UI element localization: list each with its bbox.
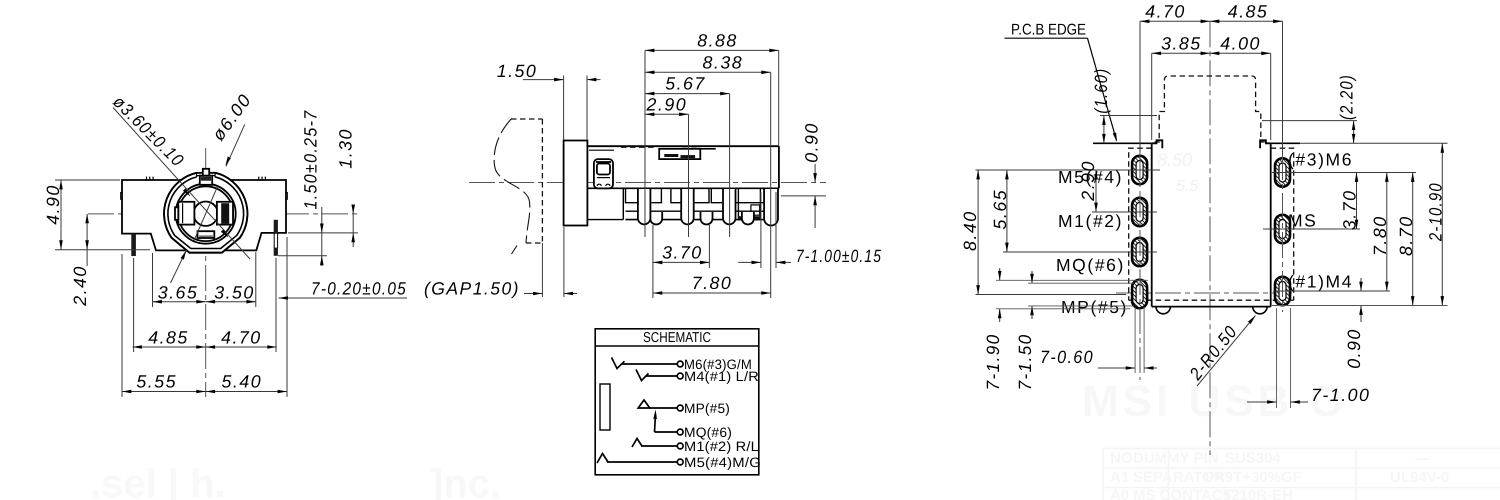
rear pin tip 2 (701, 212, 713, 225)
dim 1.50 line left (523, 79, 564, 81)
svg-text:.sel | h.: .sel | h. (90, 462, 226, 500)
top plate right line (700, 148, 715, 150)
svg-text:5.65: 5.65 (990, 189, 1010, 230)
plug sleeve rectangle (600, 384, 610, 430)
svg-text:7-1.00: 7-1.00 (1311, 385, 1370, 405)
body bottom ext line (1272, 305, 1448, 307)
contact MQ terminal (677, 429, 683, 435)
contact MP symbol triangle (638, 400, 650, 408)
gap dim extension from cap face (563, 227, 565, 297)
dim 1.50+-0.25-7 extension lines (278, 233, 358, 256)
svg-text:SUS304: SUS304 (1225, 450, 1282, 467)
dim 4.70 4.85 line (1140, 20, 1283, 22)
mating plug break wavy line (494, 119, 530, 244)
middle view horizontal center line (469, 182, 826, 184)
svg-text:5.5: 5.5 (1176, 178, 1198, 195)
svg-text:3.65: 3.65 (158, 283, 199, 303)
gap dim line right (564, 293, 577, 295)
dim 7-1.00 ext lines (1277, 308, 1291, 408)
dim 1.50+-0.25-7 line (321, 207, 323, 266)
center hole circle (194, 202, 218, 226)
right pin (front view) (274, 220, 278, 234)
svg-text:1.50: 1.50 (497, 61, 538, 81)
svg-text:C5210R-EH: C5210R-EH (1212, 487, 1293, 500)
pad M4 (1275, 277, 1290, 306)
contact M5 symbol (597, 454, 608, 464)
svg-text:PA9T+30%GF: PA9T+30%GF (1205, 469, 1302, 486)
svg-text:1.50±0.25-7: 1.50±0.25-7 (301, 110, 321, 210)
mating plug dashed edge bottom (526, 242, 542, 244)
dim 7-1.90 line (999, 268, 1001, 322)
right inner block dark bar (738, 216, 760, 219)
dim (1.60) ext line (1100, 115, 1157, 117)
contact MP wire (650, 407, 678, 409)
arrow dia3.60 upper (183, 188, 192, 197)
left pin (front view) (131, 234, 136, 256)
inner socket ring inner R27.5 (178, 186, 233, 241)
contact M1 wire (641, 445, 677, 447)
dim 7-1.00 extension lines (761, 192, 776, 268)
svg-text:2-10.90: 2-10.90 (1425, 182, 1445, 242)
svg-text:M1(#2): M1(#2) (1058, 211, 1123, 231)
pad MS (1275, 215, 1290, 244)
outer ring inner edge R38 flattened (168, 177, 244, 249)
knurl ticks top-left (147, 177, 154, 180)
hidden wing right (1271, 148, 1294, 300)
svg-text:4.70: 4.70 (1145, 2, 1186, 22)
left contact outer bump (175, 207, 178, 220)
body top edge (587, 145, 779, 147)
right contact dark bar (221, 203, 229, 224)
schematic box frame (595, 329, 759, 475)
right pad column center line overlay (1282, 154, 1284, 312)
leader M6 (1272, 172, 1416, 174)
body bottom line (587, 187, 779, 189)
svg-text:UL94V-0: UL94V-0 (1390, 469, 1449, 486)
top tab dark bar (201, 177, 211, 181)
pcb edge line left (1093, 142, 1152, 144)
pad row center line horizontal (1116, 292, 1292, 294)
svg-text:NO: NO (1110, 450, 1133, 467)
dim 0.90 right line (1360, 278, 1362, 322)
contact M4 wire (646, 375, 677, 377)
dim 8.70 line (1412, 173, 1414, 306)
svg-text:4.85: 4.85 (148, 328, 189, 348)
svg-text:7-1.50: 7-1.50 (1015, 333, 1035, 390)
bottom radius bump left (1156, 307, 1170, 314)
dim 4.70 4.85 ext lines (1140, 21, 1283, 154)
dim 7-1.50 line (1031, 271, 1033, 319)
hidden tab dashes right (682, 147, 697, 149)
body top step left (1152, 140, 1163, 148)
svg-text:7-0.60: 7-0.60 (1040, 347, 1094, 367)
left contact (178, 202, 194, 225)
svg-text:MP(#5): MP(#5) (684, 401, 730, 416)
mating plug break line stub (512, 246, 518, 255)
svg-text:7-0.20±0.05: 7-0.20±0.05 (311, 279, 407, 299)
svg-text:8.50: 8.50 (1157, 150, 1192, 170)
svg-text:2.90: 2.90 (1078, 160, 1098, 202)
gap dim line left (524, 293, 542, 295)
latch top bar (596, 161, 611, 163)
contact MQ wire (655, 431, 678, 433)
right inner block window (751, 205, 760, 215)
hidden bottom line dashed (1129, 299, 1294, 301)
dim 1.50 line right (587, 79, 601, 81)
latch mid line (597, 177, 610, 179)
leader MQ (1003, 251, 1157, 253)
svg-text:4.70: 4.70 (221, 328, 262, 348)
dim 3.85 4.00 ext lines (1152, 53, 1271, 140)
hidden component outline dashed (1155, 76, 1265, 143)
svg-text:(2.20): (2.20) (1337, 74, 1357, 120)
dim 3.70 right line (1356, 173, 1358, 230)
extension line x770.7 (770, 72, 772, 298)
top tab stub (203, 169, 209, 176)
dim 4.90 line (60, 180, 62, 250)
svg-text:M1(#2) R/L: M1(#2) R/L (684, 439, 759, 454)
pad M6 (1275, 158, 1290, 187)
dim 5.55 5.40 extension lines (122, 237, 287, 397)
right pad column center line (1282, 154, 1284, 312)
cap flange (side view) (564, 141, 588, 226)
dim 4.90 extension top (55, 179, 120, 181)
dim 5.65 line (1006, 170, 1008, 252)
left contact inner line (182, 203, 184, 223)
pad MP (1132, 280, 1147, 309)
contact MP terminal (677, 405, 683, 411)
dim 8.38 line (645, 71, 771, 73)
arrow dia3.60 lower (221, 229, 230, 238)
dim 3.65 3.50 extension lines (153, 252, 256, 307)
pad MQ (1132, 238, 1147, 267)
svg-text:7.80: 7.80 (692, 273, 733, 293)
leader M5 (976, 169, 1161, 171)
left pad column center line (1139, 152, 1141, 380)
diameter construction line for dia 6.00 (171, 125, 245, 284)
svg-text:A1: A1 (1110, 469, 1129, 486)
gap dim extension from plug edge (541, 243, 543, 297)
hidden wing left (1129, 148, 1152, 300)
top plate bar 1 (664, 154, 678, 157)
dim 7-1.00 line right (776, 261, 791, 263)
svg-text:8.40: 8.40 (960, 210, 980, 251)
knurl ticks top-right (259, 177, 266, 180)
mating plug dashed edge top (511, 118, 542, 120)
dim 1.30 line (352, 205, 354, 247)
body top step right (1260, 140, 1271, 148)
svg-text:8.70: 8.70 (1396, 215, 1416, 256)
dim 8.88 line (645, 49, 779, 51)
front pin 1 (638, 189, 651, 224)
dim 2-10.90 line (1441, 143, 1443, 305)
svg-text:2.90: 2.90 (645, 94, 687, 114)
svg-text:4.00: 4.00 (1220, 33, 1261, 53)
front pin 3 (723, 189, 736, 224)
contact M6 terminal (677, 361, 683, 367)
body left edge (1151, 143, 1153, 306)
dim (2.20) ext line (1262, 120, 1357, 122)
body bottom edge (1152, 306, 1271, 308)
dim 0.90 ext line (781, 195, 826, 197)
svg-text:DUMMY PIN: DUMMY PIN (1133, 450, 1219, 467)
left view vertical center line (205, 148, 207, 397)
leader MP (976, 294, 1127, 296)
extension line x729.6 (729, 94, 731, 237)
contact M6 symbol (612, 358, 625, 369)
contact M1 terminal (677, 443, 683, 449)
pad M1 (1132, 198, 1147, 227)
leader M1 (1092, 211, 1157, 213)
contact M5 wire (607, 461, 677, 463)
dim 3.70 extension lines (653, 225, 710, 298)
svg-text:MP(#5): MP(#5) (1061, 297, 1128, 317)
dim 2-R0.50 leader (1197, 316, 1255, 386)
dim 4.85 4.70 line (133, 346, 277, 348)
bottom radius bump right (1253, 307, 1267, 314)
svg-text:P.C.B EDGE: P.C.B EDGE (1011, 22, 1086, 39)
schematic title separator (595, 345, 759, 347)
dim 7-0.60 ext lines (1135, 307, 1144, 373)
svg-text:7-1.90: 7-1.90 (983, 333, 1003, 390)
svg-text:3.70: 3.70 (1340, 189, 1360, 230)
top plate bar 2 (681, 155, 696, 158)
svg-text:5.67: 5.67 (665, 74, 706, 94)
ring gap cap right (214, 173, 216, 177)
dim 2.90 line (645, 113, 689, 115)
dim (2.20) line (1353, 121, 1355, 144)
lower strip line (626, 219, 777, 221)
dim 3.70 line (653, 261, 710, 263)
dim 7-1.00 line left (1247, 401, 1277, 403)
svg-text:MQ(#6): MQ(#6) (684, 425, 732, 440)
contact MQ symbol arrow (655, 414, 656, 432)
dim 2.90 line (1095, 170, 1097, 212)
svg-text:4.85: 4.85 (1228, 2, 1269, 22)
outer ring outer edge R42 flattened (164, 173, 247, 253)
inner socket ring outer R30 (176, 184, 236, 244)
extension line x778.7 (778, 50, 780, 146)
dim 5.67 line (645, 93, 730, 95)
top tab flange lines (196, 175, 215, 177)
dim 7-1.00 line left (738, 261, 761, 263)
svg-text:0.90: 0.90 (802, 122, 822, 163)
dim 7.80 right line (1386, 173, 1388, 292)
P.C.B EDGE underline (1005, 37, 1088, 39)
dim 7-0.20 leader line (279, 297, 408, 299)
svg-text:M5(#4)M/G: M5(#4)M/G (684, 455, 761, 470)
svg-text:8.88: 8.88 (697, 31, 738, 51)
svg-text:7-1.00±0.15: 7-1.00±0.15 (796, 246, 882, 266)
latch feet (597, 184, 610, 186)
svg-text:3.70: 3.70 (662, 243, 703, 263)
leader M4 (1273, 290, 1390, 292)
extension line x645 (644, 50, 646, 237)
leader MS (1263, 228, 1360, 230)
svg-text:3.85: 3.85 (1161, 33, 1202, 53)
mid strip line (626, 210, 777, 212)
latch outer (594, 159, 613, 188)
svg-text:]nc.: ]nc. (430, 462, 501, 500)
contact M5 terminal (677, 459, 683, 465)
diameter construction line for dia 3.60 (113, 108, 250, 260)
P.C.B EDGE leader (1088, 38, 1117, 140)
contact M4 symbol (636, 370, 649, 381)
svg-text:7.80: 7.80 (1370, 215, 1390, 256)
body right edge (1270, 143, 1272, 306)
mating plug dashed edge vertical (541, 119, 543, 243)
contact M4 terminal (677, 373, 683, 379)
dim 7-1.00 line right (1291, 401, 1309, 403)
front pin 2 (681, 189, 694, 224)
rear pin tip 1 (650, 212, 662, 225)
arrow dia6.00 lower (181, 250, 188, 260)
right body side nub (286, 192, 288, 199)
pcb view vertical center line (1209, 21, 1211, 455)
svg-text:MQ(#6): MQ(#6) (1056, 255, 1125, 275)
svg-text:MS: MS (1288, 211, 1317, 231)
arrow dia6.00 upper (224, 157, 231, 167)
dim 5.55 5.40 line (122, 391, 287, 393)
hidden tab dashes left (621, 146, 654, 148)
left body side nub (121, 192, 123, 199)
left view horizontal center line (88, 213, 358, 215)
svg-text:—: — (1415, 450, 1430, 467)
connector body outline (front view) (122, 180, 286, 250)
extension line x688.5 (688, 114, 690, 237)
dim 0.90 line (814, 164, 816, 228)
top tab body (200, 176, 212, 185)
svg-text:SCHEMATIC: SCHEMATIC (643, 330, 711, 346)
dim 4.85 4.70 extension lines (134, 258, 276, 352)
faint table grid (1103, 449, 1500, 500)
svg-text:8.38: 8.38 (702, 52, 743, 72)
svg-text:5.55: 5.55 (136, 372, 177, 392)
svg-text:(#3)M6: (#3)M6 (1288, 150, 1353, 170)
svg-text:(1.60): (1.60) (1091, 68, 1111, 114)
bottom contact inner line (199, 235, 213, 237)
svg-text:3.50: 3.50 (214, 283, 255, 303)
svg-text:2.40: 2.40 (70, 265, 90, 307)
body right edge (778, 146, 780, 188)
dim 7-0.60 line right (1144, 367, 1157, 369)
dim 4.90 extension bottom (55, 249, 150, 251)
dim 1.50 extension lines (564, 76, 587, 140)
dim 7-0.60 line left (1098, 367, 1135, 369)
pcb edge extension right (1300, 142, 1448, 144)
pad dim ext lines left (996, 280, 1148, 309)
right contact (217, 202, 233, 225)
svg-text:0.90: 0.90 (1344, 328, 1364, 369)
bottom contact (198, 231, 215, 238)
svg-text:1.30: 1.30 (336, 128, 356, 169)
body left lower block (587, 188, 623, 219)
right inner block (738, 188, 760, 219)
latch window (597, 164, 610, 175)
contact M6 wire (621, 363, 677, 365)
pcb edge line right (1271, 142, 1300, 144)
svg-text:4.90: 4.90 (43, 184, 63, 225)
svg-text:M4(#1) L/R: M4(#1) L/R (684, 369, 759, 384)
comb teeth bottoms (626, 188, 765, 202)
dim (1.60) line (1103, 116, 1105, 144)
dim 8.40 line (977, 170, 979, 295)
body secondary top line (589, 149, 614, 151)
svg-text:(#1)M4: (#1)M4 (1288, 272, 1353, 292)
dim 2.40 line (86, 214, 88, 266)
dim 3.65 3.50 line (153, 301, 256, 303)
rear pin tip 3 (742, 212, 754, 225)
top plate (659, 149, 700, 159)
dim 3.85 4.00 line (1152, 52, 1271, 54)
svg-text:A0: A0 (1110, 487, 1129, 500)
left pad column center line overlay (1139, 152, 1141, 380)
ring gap cap left (195, 173, 197, 177)
contact M1 symbol (632, 439, 642, 448)
svg-text:(GAP1.50): (GAP1.50) (424, 279, 520, 299)
pad M5 (1132, 156, 1147, 185)
front pin 4 (764, 189, 778, 226)
svg-text:5.40: 5.40 (221, 372, 262, 392)
dim 7.80 line (653, 292, 771, 294)
